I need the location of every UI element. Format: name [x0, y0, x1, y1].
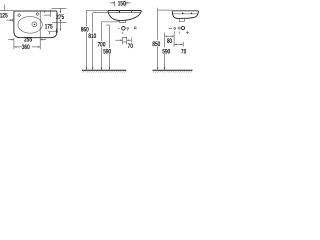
svg-text:150: 150: [118, 1, 126, 8]
svg-text:360: 360: [22, 44, 30, 51]
svg-text:80: 80: [167, 38, 172, 45]
svg-text:850: 850: [152, 41, 160, 48]
svg-text:255: 255: [24, 37, 32, 44]
svg-text:810: 810: [88, 33, 96, 40]
svg-text:700: 700: [97, 41, 105, 48]
svg-text:590: 590: [162, 48, 170, 55]
svg-text:590: 590: [103, 49, 111, 56]
svg-text:70: 70: [128, 43, 133, 50]
svg-text:125: 125: [0, 13, 8, 20]
svg-text:70: 70: [181, 48, 186, 55]
svg-text:175: 175: [45, 23, 53, 30]
